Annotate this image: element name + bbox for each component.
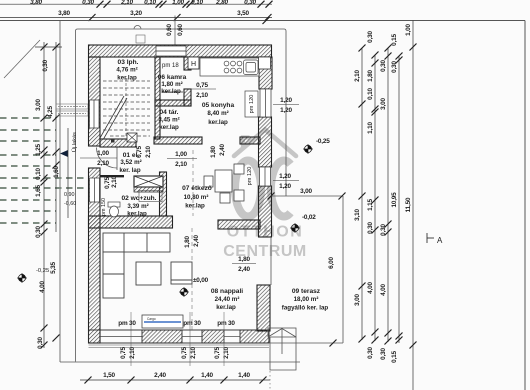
- svg-text:1,50: 1,50: [103, 372, 115, 379]
- bottom dim chain: [80, 379, 270, 381]
- section mark A: [427, 233, 434, 243]
- svg-text:24,40 m²: 24,40 m²: [215, 296, 240, 303]
- wall mid vertical: [155, 57, 160, 139]
- site boundary top line: [0, 20, 525, 22]
- svg-text:ker. lap: ker. lap: [119, 167, 141, 174]
- svg-text:1,25: 1,25: [35, 144, 42, 156]
- right dim chains: [362, 21, 413, 390]
- svg-text:pm 120: pm 120: [249, 95, 255, 114]
- svg-text:3,80: 3,80: [30, 0, 42, 6]
- svg-text:ker.lap: ker.lap: [185, 203, 205, 210]
- svg-text:1,00: 1,00: [175, 151, 187, 158]
- svg-text:2,10: 2,10: [97, 160, 109, 167]
- svg-text:4,76 m²: 4,76 m²: [116, 67, 137, 74]
- svg-text:02 wc+zuh.: 02 wc+zuh.: [122, 195, 157, 202]
- svg-text:1,80 m²: 1,80 m²: [161, 81, 182, 88]
- svg-text:Új lakás: Új lakás: [71, 132, 78, 152]
- dashed lines left (existing features): [0, 118, 88, 223]
- interior dimension labels: [80, 82, 299, 273]
- diagonal road line top left: [4, 40, 40, 78]
- bottom wall band: [89, 330, 270, 343]
- svg-text:pm 150: pm 150: [101, 198, 107, 216]
- svg-text:1,20: 1,20: [279, 183, 291, 190]
- svg-text:11,50: 11,50: [405, 197, 412, 212]
- svg-text:1,00: 1,00: [405, 24, 412, 36]
- svg-text:1,20: 1,20: [279, 173, 291, 180]
- svg-text:2,10: 2,10: [145, 146, 152, 158]
- svg-text:0,30: 0,30: [367, 347, 374, 359]
- armchair: [171, 262, 192, 284]
- site boundary bottom line: [60, 361, 300, 363]
- svg-text:1,15: 1,15: [367, 199, 374, 211]
- svg-text:0,75: 0,75: [196, 82, 208, 89]
- konyha pm120 window box: [245, 91, 258, 117]
- svg-text:2,40: 2,40: [238, 266, 250, 273]
- svg-text:ker.lap: ker.lap: [161, 88, 181, 95]
- svg-text:0,75: 0,75: [214, 347, 221, 359]
- svg-text:3,00: 3,00: [35, 99, 42, 111]
- svg-text:8,40 m²: 8,40 m²: [207, 110, 228, 117]
- corner shaft konyha NE: [259, 57, 271, 69]
- svg-text:H: H: [191, 61, 196, 68]
- room labels: [116, 59, 328, 312]
- svg-text:3,50: 3,50: [237, 10, 249, 17]
- svg-text:0,30: 0,30: [367, 222, 374, 234]
- svg-text:0,10: 0,10: [35, 168, 42, 180]
- svg-text:Cargo: Cargo: [147, 317, 156, 321]
- svg-text:0,30: 0,30: [380, 224, 387, 236]
- left wall lower: [89, 168, 101, 343]
- pm 30 labels and door columns: [118, 320, 235, 359]
- svg-text:01 el.: 01 el.: [123, 152, 140, 159]
- window konyha right: [260, 89, 271, 117]
- svg-text:pm 30: pm 30: [217, 320, 235, 327]
- svg-text:0,90: 0,90: [64, 192, 75, 198]
- svg-text:0,15: 0,15: [391, 351, 398, 363]
- left wall upper: [89, 57, 101, 146]
- svg-text:-0,60: -0,60: [64, 201, 76, 207]
- svg-text:4,00: 4,00: [367, 282, 374, 294]
- terrace outline: [269, 196, 343, 343]
- svg-text:0,30: 0,30: [37, 337, 44, 349]
- svg-text:0,30: 0,30: [42, 59, 49, 71]
- svg-text:5,35: 5,35: [50, 262, 57, 274]
- svg-text:0,15: 0,15: [391, 34, 398, 46]
- svg-text:1,80: 1,80: [238, 256, 250, 263]
- inner room outline strokes: [0, 0, 1, 1]
- svg-text:0,30: 0,30: [367, 31, 374, 43]
- svg-text:-0,25: -0,25: [36, 268, 49, 274]
- coffee table: [136, 262, 161, 285]
- svg-text:6,00: 6,00: [328, 257, 335, 269]
- svg-text:05 konyha: 05 konyha: [202, 102, 235, 109]
- svg-text:4,00: 4,00: [39, 281, 46, 293]
- svg-text:0,30: 0,30: [244, 0, 256, 6]
- svg-text:A: A: [437, 236, 443, 245]
- svg-text:1,60: 1,60: [53, 166, 60, 178]
- svg-text:0,30: 0,30: [380, 348, 387, 360]
- small boxes top left: [56, 104, 88, 109]
- svg-text:03 lph.: 03 lph.: [118, 59, 139, 66]
- svg-text:4,25: 4,25: [47, 106, 54, 118]
- svg-text:3,00: 3,00: [380, 98, 387, 110]
- svg-text:0,75: 0,75: [181, 347, 188, 359]
- stair window left wall: [90, 100, 100, 128]
- svg-text:1,40: 1,40: [201, 372, 213, 379]
- svg-text:3,45 m²: 3,45 m²: [158, 117, 179, 124]
- wc window left: [90, 178, 100, 202]
- entrance door arc: [97, 148, 118, 169]
- svg-text:1,00: 1,00: [97, 150, 109, 157]
- svg-text:18,00 m²: 18,00 m²: [294, 296, 319, 303]
- svg-text:4,00: 4,00: [380, 284, 387, 296]
- wall stair south: [100, 139, 136, 147]
- svg-text:ker.lap: ker.lap: [127, 211, 147, 218]
- svg-text:pm 18: pm 18: [162, 63, 179, 69]
- top wall: [89, 45, 272, 57]
- flag marker: [60, 150, 68, 157]
- svg-text:3,00: 3,00: [354, 294, 361, 306]
- svg-text:2,40: 2,40: [219, 144, 226, 156]
- svg-text:ker.lap: ker.lap: [208, 119, 228, 126]
- svg-text:1,40: 1,40: [238, 372, 250, 379]
- top dimension chain A: [0, 3, 272, 5]
- svg-text:1,20: 1,20: [280, 107, 292, 114]
- svg-text:2,10: 2,10: [196, 92, 208, 99]
- svg-text:3,20: 3,20: [130, 10, 142, 17]
- site boundary left line: [59, 21, 61, 363]
- svg-text:2,10: 2,10: [129, 347, 136, 359]
- svg-text:3,80: 3,80: [58, 10, 70, 17]
- dining table: [204, 164, 244, 203]
- svg-text:CENTRUM: CENTRUM: [223, 243, 307, 260]
- svg-text:09 terasz: 09 terasz: [292, 288, 321, 295]
- svg-text:08 nappali: 08 nappali: [211, 288, 243, 295]
- windows top wall: [156, 46, 186, 56]
- sofa: [103, 233, 170, 298]
- window etkezo right: [260, 167, 271, 186]
- top dimension chain B: [0, 17, 272, 19]
- svg-text:0,10: 0,10: [191, 0, 203, 6]
- svg-text:±0,00: ±0,00: [193, 277, 209, 284]
- svg-text:3,10: 3,10: [354, 209, 361, 221]
- svg-text:-0,25: -0,25: [316, 138, 330, 145]
- svg-text:pm 120: pm 120: [247, 167, 253, 186]
- left dim chain 1: [35, 42, 62, 348]
- plot inner boundary: [76, 29, 287, 362]
- under-stair shaft box: [127, 133, 137, 142]
- svg-text:3,39 m²: 3,39 m²: [127, 203, 148, 210]
- kamra/tar divider: [155, 100, 191, 106]
- svg-text:ker.lap: ker.lap: [159, 124, 179, 131]
- WALLS: [89, 45, 273, 348]
- svg-text:2,80: 2,80: [215, 0, 228, 6]
- stairs treads: [103, 81, 150, 136]
- wc south wall / nappali top: [89, 216, 173, 228]
- svg-text:fagyálló ker. lap: fagyálló ker. lap: [282, 305, 329, 312]
- svg-text:2,10: 2,10: [190, 347, 197, 359]
- svg-text:1,80: 1,80: [210, 146, 217, 158]
- svg-text:-0,02: -0,02: [302, 214, 316, 221]
- svg-text:1,20: 1,20: [280, 97, 292, 104]
- svg-text:04 tár.: 04 tár.: [159, 109, 178, 116]
- dashed ref line etkezo/nappali: [192, 150, 194, 216]
- svg-text:0,10: 0,10: [144, 0, 156, 6]
- svg-text:2,10: 2,10: [175, 161, 187, 168]
- svg-text:0,30: 0,30: [391, 61, 398, 73]
- garden steps: [268, 328, 296, 370]
- svg-text:07 étkező: 07 étkező: [182, 185, 212, 192]
- svg-text:3,52 m²: 3,52 m²: [120, 159, 141, 166]
- svg-text:2,10: 2,10: [111, 176, 118, 188]
- wc fixtures: [100, 175, 125, 177]
- svg-text:0,60: 0,60: [177, 24, 184, 36]
- svg-text:0,30: 0,30: [380, 60, 387, 72]
- svg-text:pm 30: pm 30: [118, 320, 136, 327]
- chimney H: [188, 57, 199, 69]
- svg-text:0,75: 0,75: [120, 347, 127, 359]
- kamra right wall: [184, 57, 191, 70]
- right wall konyha: [259, 57, 272, 89]
- svg-text:pm 30: pm 30: [183, 320, 201, 327]
- svg-text:0,30: 0,30: [35, 226, 42, 238]
- svg-text:0,10: 0,10: [367, 88, 374, 100]
- svg-text:0,30: 0,30: [82, 0, 94, 6]
- tv console: [142, 315, 183, 328]
- benchmark left: [17, 273, 27, 283]
- svg-text:0,60: 0,60: [166, 24, 173, 36]
- svg-text:ker.lap: ker.lap: [117, 75, 137, 82]
- shaft with X 01el/02wc: [134, 176, 163, 187]
- svg-text:1,80: 1,80: [367, 70, 374, 82]
- svg-text:2,40: 2,40: [193, 235, 200, 247]
- svg-text:0,75: 0,75: [104, 177, 111, 189]
- svg-text:2,10: 2,10: [354, 70, 361, 82]
- svg-text:10,95: 10,95: [391, 192, 398, 208]
- svg-text:1,80: 1,80: [184, 236, 191, 248]
- svg-text:2,40: 2,40: [154, 372, 166, 379]
- gate bump on plot line: [134, 26, 141, 29]
- window offset dim top: [174, 16, 176, 46]
- kitchen counter: [200, 58, 259, 76]
- svg-text:10,80 m²: 10,80 m²: [184, 194, 209, 201]
- kamra ker.lap strikethrough: [162, 91, 183, 93]
- watermark: [234, 130, 296, 217]
- svg-text:ker.lap: ker.lap: [216, 304, 236, 311]
- benchmarks: [303, 144, 313, 154]
- svg-text:2,10: 2,10: [120, 0, 133, 6]
- svg-text:1,65: 1,65: [35, 185, 42, 197]
- svg-text:1,00: 1,00: [172, 0, 184, 6]
- svg-text:1,10: 1,10: [367, 122, 374, 134]
- svg-text:06 kamra: 06 kamra: [158, 74, 187, 81]
- site boundary right line: [524, 21, 526, 390]
- svg-text:3,00: 3,00: [300, 188, 312, 195]
